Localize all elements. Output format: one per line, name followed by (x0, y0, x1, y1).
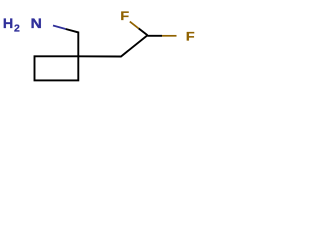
svg-text:F: F (186, 30, 195, 44)
bond CHF2-F(top) black half (139, 28, 148, 35)
bond CHF2-F(right) olive half (162, 35, 177, 37)
bond CHF2-F(top) olive half (130, 22, 139, 29)
bond CHF2-F(right) black half (148, 35, 163, 37)
svg-text:F: F (120, 9, 129, 23)
svg-text:H: H (3, 15, 13, 31)
cyclobutane ring C1-C2-C3-C4 (35, 56, 79, 80)
bond N1-CH2a blue half (53, 26, 66, 30)
bond N1-CH2a black half + bond CH2a-C1 vertical (66, 29, 79, 56)
bond C1-CH2b horizontal + bond CH2b-CHF2 diagonal (78, 35, 147, 56)
svg-text:2: 2 (14, 23, 20, 35)
svg-text:N: N (31, 17, 42, 32)
